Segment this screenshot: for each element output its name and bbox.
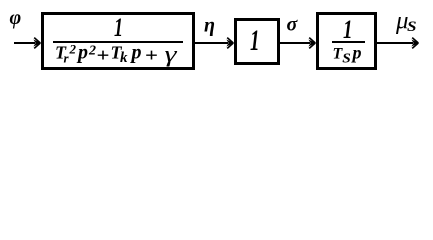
fraction bar (block U1)	[53, 41, 183, 43]
wire input arrow phi	[14, 38, 41, 49]
svg-text:S: S	[342, 52, 351, 67]
svg-text:+: +	[97, 46, 110, 67]
wire output arrow mu_S	[377, 38, 419, 49]
svg-text:2: 2	[88, 44, 96, 59]
svg-text:γ: γ	[165, 42, 178, 67]
wire sigma arrow	[279, 38, 316, 49]
svg-text:k: k	[120, 50, 128, 66]
wire eta arrow	[195, 38, 234, 49]
block U3 transfer function 1/(Ts p)	[318, 14, 376, 69]
svg-text:+: +	[145, 46, 158, 67]
svg-text:φ: φ	[10, 7, 22, 29]
block U2 gain 1	[236, 20, 279, 64]
svg-text:η: η	[204, 15, 215, 37]
svg-text:σ: σ	[287, 14, 299, 36]
fraction bar (block U3)	[332, 41, 365, 43]
svg-text:p: p	[351, 43, 362, 63]
svg-text:2: 2	[69, 42, 77, 57]
svg-text:S: S	[407, 19, 417, 35]
svg-text:p: p	[130, 42, 142, 64]
svg-text:1: 1	[114, 13, 123, 42]
svg-text:1: 1	[343, 15, 353, 44]
svg-text:1: 1	[250, 24, 260, 57]
block U1 transfer function 1/(Tr^2 p^2 + Tk p + gamma)	[43, 14, 194, 69]
svg-text:p: p	[76, 42, 88, 64]
